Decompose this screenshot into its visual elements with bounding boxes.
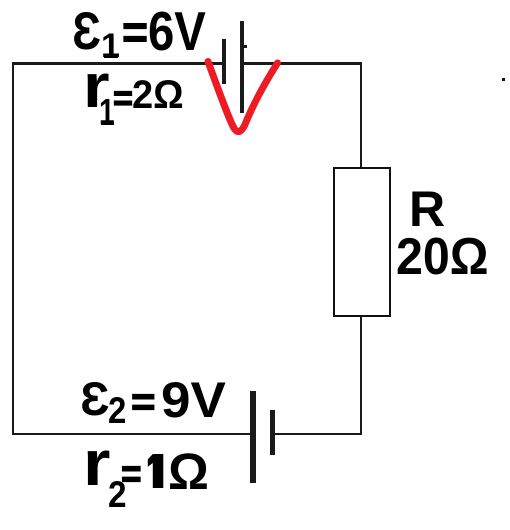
label E1 value 6V — [148, 4, 206, 59]
wire right upper segment — [360, 62, 363, 168]
battery E2 negative plate — [270, 410, 275, 455]
wire right lower segment — [360, 316, 363, 435]
label E1 EMF symbol — [72, 5, 101, 58]
label r2 value digit 1 — [146, 452, 166, 490]
wire bottom-right segment — [275, 433, 362, 436]
resistor R body — [333, 167, 391, 317]
label E2 value 9V — [161, 375, 226, 425]
label R designator — [409, 184, 445, 234]
label r1 subscript 1 — [99, 94, 115, 130]
label r1 value 2 ohm — [132, 75, 184, 115]
label r1 symbol — [83, 56, 110, 118]
wire top-right segment — [244, 62, 363, 65]
label E2 subscript 2 — [108, 392, 126, 429]
label r2 value ohm symbol — [168, 446, 209, 497]
wire top-left segment — [13, 62, 222, 65]
wire left side — [12, 62, 15, 435]
label E1 equals sign — [122, 8, 148, 55]
label E2 EMF symbol — [80, 375, 109, 422]
label r2 equals sign — [121, 454, 142, 494]
stray ink dot — [502, 78, 505, 81]
label E1 subscript 1 — [101, 29, 120, 63]
battery E1 positive plate — [240, 21, 244, 113]
battery E1 plate tick — [244, 45, 248, 48]
label E2 equals sign — [131, 382, 156, 422]
battery E2 positive plate — [250, 391, 256, 483]
label R value 20 ohm — [396, 231, 489, 283]
label r2 subscript 2 — [108, 476, 127, 513]
wire bottom-left segment — [12, 433, 250, 436]
label r2 symbol — [83, 431, 110, 495]
label r1 equals sign — [113, 80, 133, 116]
battery E1 negative plate — [222, 39, 227, 84]
